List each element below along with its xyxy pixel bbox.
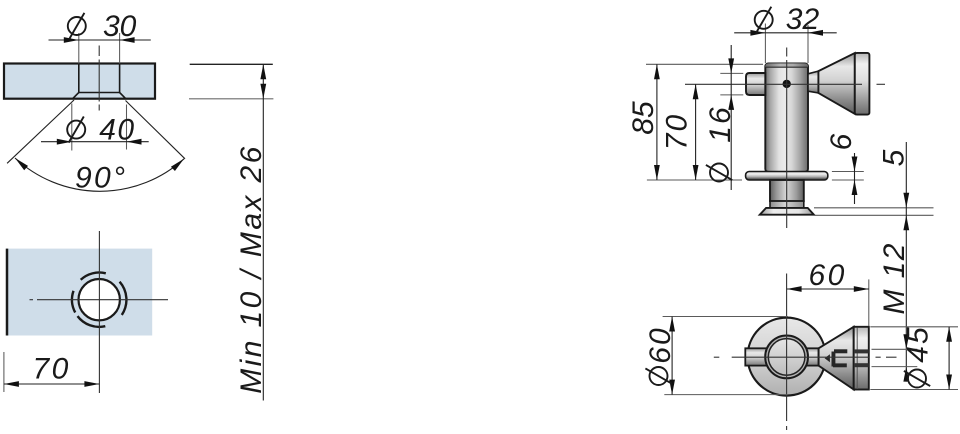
dim 5 arrows: [903, 193, 909, 208]
dim Ø32 line: [734, 32, 837, 34]
pivot hole: [783, 80, 791, 88]
side view horizontal axis centerline: [685, 83, 862, 85]
plate centerline: [98, 46, 100, 57]
left inlet stub: [746, 73, 765, 95]
dim Ø45 arrows: [946, 327, 952, 342]
dim 70 extension line: [3, 352, 5, 392]
outlet cone: [818, 53, 854, 114]
angle 90 arc: [15, 158, 184, 191]
min-max arrows: [260, 64, 266, 79]
plate top view: [6, 249, 152, 336]
dim Ø30 arrows: [64, 37, 79, 43]
svg-text:70: 70: [660, 113, 693, 150]
svg-text:45: 45: [902, 325, 935, 362]
dim Ø16 arrows: [728, 58, 734, 73]
countersink arc bottom: [78, 316, 106, 327]
dim Ø40 diameter symbol: [67, 121, 85, 139]
dim 70 arrows (side): [693, 84, 699, 99]
dim Ø30 line: [49, 39, 151, 41]
dim Ø30 diameter symbol: [68, 17, 86, 35]
svg-text:85: 85: [627, 101, 660, 135]
dim 60 line: [787, 288, 869, 290]
countersink arc left: [72, 291, 75, 313]
dim 6 line: [854, 153, 856, 204]
dim 85 extension lines: [646, 63, 763, 65]
rim thread stripe lower: [854, 363, 869, 367]
svg-text:30: 30: [103, 10, 137, 43]
svg-text:60: 60: [644, 326, 677, 363]
dim Ø60 diameter symbol: [650, 367, 668, 385]
dim 60 arrows: [787, 286, 802, 292]
top view vertical centerline: [786, 274, 788, 422]
flange circle: [748, 318, 826, 396]
flange disc: [746, 172, 828, 181]
body ring outer: [765, 336, 808, 379]
rim inner edge line: [856, 328, 858, 390]
dim M12 extension lines: [872, 348, 918, 350]
svg-text:5: 5: [878, 149, 911, 166]
tap body top chamfer band: [765, 63, 808, 67]
dim Ø45 line: [948, 327, 950, 390]
svg-text:90°: 90°: [75, 162, 127, 195]
dim 60 extension line right: [868, 279, 870, 326]
side view vertical centerline: [786, 48, 788, 57]
dim Ø32 diameter symbol: [755, 11, 773, 29]
svg-text:Min 10 / Max 26: Min 10 / Max 26: [235, 144, 268, 393]
countersink arc right: [120, 282, 127, 315]
dim Ø45 extension lines: [870, 326, 958, 328]
countersink top edge: [79, 92, 120, 94]
dim 6 arrows: [852, 157, 858, 172]
dim Ø60 extension lines: [663, 316, 788, 318]
plate section: [4, 64, 155, 99]
top view horizontal centerline: [714, 356, 720, 358]
plate top view left edge: [6, 249, 9, 336]
dim 6 extension lines: [832, 171, 864, 173]
hole right wall: [119, 64, 121, 93]
dim Ø45 diameter symbol: [908, 370, 926, 388]
svg-text:M 12: M 12: [878, 242, 911, 314]
svg-text:16: 16: [704, 105, 737, 142]
min-max top reference line: [190, 63, 273, 65]
hole left wall: [78, 64, 80, 93]
svg-text:32: 32: [786, 3, 820, 36]
dim 70 line: [4, 383, 100, 385]
countersink arc top: [81, 272, 106, 279]
dim Ø40 arrows: [57, 139, 72, 145]
neck top view: [795, 348, 819, 365]
dim Ø16 extension lines: [720, 72, 743, 74]
dim 85 arrows: [654, 64, 660, 79]
dim Ø60 arrows: [669, 317, 675, 332]
dim Ø16 diameter symbol: [710, 164, 728, 182]
angle 90 arc arrows: [15, 158, 28, 170]
cone top view: [819, 327, 854, 390]
svg-text:70: 70: [33, 353, 71, 386]
base skirt: [760, 208, 814, 215]
horizontal centerline: [30, 299, 34, 301]
svg-text:6: 6: [825, 133, 858, 150]
tap body cylinder: [765, 63, 808, 171]
countersink left chamfer: [73, 93, 79, 99]
min-max bottom reference line: [189, 98, 273, 100]
dim Ø40 line: [41, 141, 149, 143]
internal outlet silhouette: [832, 352, 836, 367]
min-max dimension line: [262, 64, 264, 400]
dim Ø32 extension lines: [764, 24, 766, 64]
outlet rim: [855, 53, 870, 115]
angle 90 left leg: [7, 100, 74, 163]
dim 70 arrows: [4, 381, 19, 387]
svg-text:60: 60: [809, 259, 847, 292]
right neck: [808, 71, 818, 93]
dim Ø30 extension lines: [78, 33, 80, 64]
collar band: [770, 201, 804, 208]
angle 90 right leg: [126, 101, 186, 159]
shank: [770, 180, 804, 201]
dim Ø32 arrows: [750, 30, 765, 36]
dim 5 and M12 shared line: [905, 142, 907, 382]
svg-text:40: 40: [99, 114, 135, 147]
rim thread stripe upper: [854, 349, 869, 353]
dim Ø60 line: [671, 317, 673, 395]
vertical centerline: [98, 231, 100, 393]
hole circle: [79, 279, 120, 320]
inlet stub top view: [745, 348, 795, 365]
dim M12 arrows: [903, 334, 909, 349]
dim 5 extension lines: [814, 207, 934, 209]
dim Ø40 extension lines: [71, 104, 73, 151]
dim Ø16 line: [730, 45, 732, 190]
countersink right chamfer: [120, 93, 126, 99]
body ring bore: [768, 339, 805, 376]
rim top view: [854, 327, 869, 390]
dim 85 line: [656, 64, 658, 180]
dim 70 line (side): [695, 84, 697, 180]
